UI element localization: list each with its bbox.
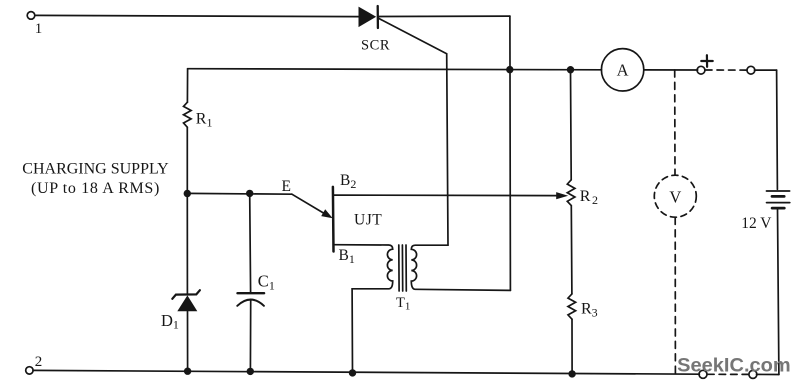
svg-text:(UP to 18 A RMS): (UP to 18 A RMS) xyxy=(31,180,160,197)
svg-text:A: A xyxy=(617,61,629,80)
svg-text:1: 1 xyxy=(35,21,43,37)
svg-text:CHARGING SUPPLY: CHARGING SUPPLY xyxy=(22,161,169,178)
svg-text:SCR: SCR xyxy=(361,37,390,53)
svg-text:D1: D1 xyxy=(161,311,179,332)
svg-text:V: V xyxy=(669,187,681,206)
svg-text:T1: T1 xyxy=(396,295,410,313)
svg-text:R2: R2 xyxy=(580,188,598,207)
svg-text:C1: C1 xyxy=(258,272,275,293)
svg-text:B1: B1 xyxy=(339,247,355,266)
svg-text:2: 2 xyxy=(35,354,43,370)
svg-text:SeekIC.com: SeekIC.com xyxy=(677,356,791,377)
svg-text:R3: R3 xyxy=(581,301,598,320)
svg-text:12 V: 12 V xyxy=(741,215,772,232)
svg-text:E: E xyxy=(282,178,291,195)
svg-text:R1: R1 xyxy=(196,111,213,130)
svg-text:B2: B2 xyxy=(340,172,356,191)
svg-text:UJT: UJT xyxy=(354,212,382,229)
